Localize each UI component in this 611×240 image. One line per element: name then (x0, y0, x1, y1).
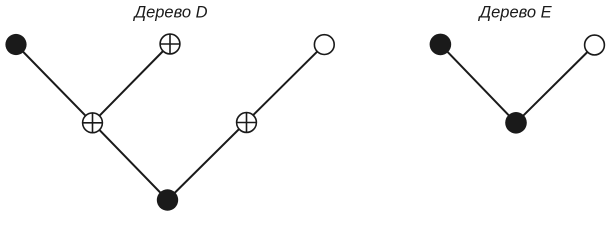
wire C-E (93, 123, 168, 200)
node G (black, tree E top-left) (430, 34, 452, 56)
node H (black, tree E bottom) (505, 112, 527, 134)
node E (black, tree D bottom) (157, 189, 178, 210)
node F (white, tree D top-right) (314, 35, 334, 55)
node C (crossed, tree D middle-left) (83, 113, 103, 133)
node A (black, tree D top-left) (5, 34, 26, 55)
node D (crossed, tree D middle-right) (237, 113, 257, 133)
wire B-C (93, 44, 171, 123)
svg-text:Дерево D: Дерево D (132, 4, 207, 22)
wire E-F (through node D) (168, 45, 325, 200)
wire H-I (516, 45, 595, 123)
node B (crossed, tree D top-middle) (160, 34, 180, 54)
wire A-C (16, 45, 93, 123)
wire G-H (440, 44, 516, 122)
node I (white, tree E top-right) (585, 35, 605, 55)
svg-text:Дерево E: Дерево E (478, 4, 553, 22)
